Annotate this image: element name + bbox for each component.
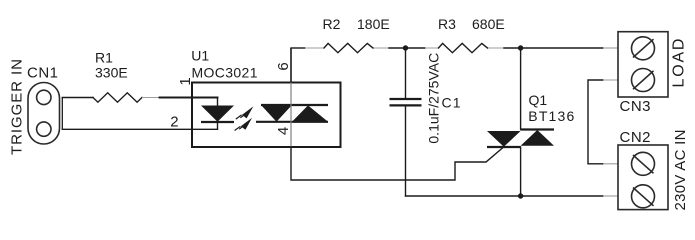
wire R2 to R3 bbox=[389, 47, 425, 49]
svg-text:4: 4 bbox=[275, 127, 292, 135]
connector CN2 bbox=[618, 145, 668, 210]
triac Q1 bbox=[487, 48, 554, 196]
svg-text:330E: 330E bbox=[95, 65, 128, 81]
connector CN1 bbox=[28, 83, 60, 145]
svg-text:TRIGGER IN: TRIGGER IN bbox=[9, 59, 26, 155]
wire R1 to U1 pin1 bbox=[142, 97, 160, 99]
svg-text:R1: R1 bbox=[95, 49, 113, 65]
wire top rail pin6 corner to R2 bbox=[291, 47, 305, 49]
CN1 terminal bar bbox=[61, 97, 63, 129]
svg-text:U1: U1 bbox=[191, 47, 209, 63]
wire CN1 pin2 to U1 pin2 bbox=[62, 128, 217, 130]
svg-text:CN3: CN3 bbox=[620, 98, 651, 115]
svg-text:6: 6 bbox=[275, 62, 292, 70]
CN3/CN2 pin leads bbox=[603, 80, 618, 164]
capacitor C1 bbox=[390, 48, 422, 196]
resistor R3 bbox=[439, 43, 488, 52]
svg-text:680E: 680E bbox=[472, 16, 505, 32]
junction node C1/top rail bbox=[403, 45, 408, 50]
R3 pin leads bbox=[425, 47, 504, 49]
junction node Q1/bottom rail bbox=[518, 193, 523, 198]
wire bottom rail C1 to CN2 bbox=[406, 195, 604, 197]
LED D1 inside U1 bbox=[201, 98, 234, 130]
emission arrows bbox=[235, 106, 254, 130]
wire U1 pin4 to Q1 gate bbox=[291, 147, 504, 180]
optocoupler U1 box bbox=[192, 83, 341, 148]
phototriac inside U1 bbox=[256, 105, 328, 122]
svg-text:180E: 180E bbox=[357, 16, 390, 32]
svg-text:CN2: CN2 bbox=[620, 129, 651, 146]
R2 pin leads bbox=[305, 47, 389, 49]
svg-text:2: 2 bbox=[170, 114, 178, 131]
svg-text:R3: R3 bbox=[438, 16, 456, 32]
svg-text:LOAD: LOAD bbox=[671, 39, 688, 88]
wire CN3 pin2 to CN2 pin1 bbox=[588, 80, 603, 164]
svg-text:1: 1 bbox=[177, 77, 194, 85]
wire R3 to CN3 bbox=[504, 47, 603, 49]
junction node Q1/top rail bbox=[518, 45, 523, 50]
CN2 pin lead bottom bbox=[603, 195, 618, 197]
connector CN3 bbox=[618, 32, 668, 97]
wire U1 pin6 up to top rail bbox=[290, 48, 292, 83]
svg-text:CN1: CN1 bbox=[27, 65, 58, 82]
svg-text:C1: C1 bbox=[442, 95, 461, 111]
svg-text:Q1: Q1 bbox=[529, 92, 548, 108]
internal vertical line pin6-pin4 bbox=[290, 83, 292, 148]
CN3 pin lead top bbox=[603, 47, 618, 49]
wire CN1 pin1 to R1 bbox=[62, 97, 93, 99]
svg-text:BT136: BT136 bbox=[528, 108, 574, 124]
svg-text:230V AC IN: 230V AC IN bbox=[672, 130, 689, 211]
svg-text:0.1uF/275VAC: 0.1uF/275VAC bbox=[425, 53, 441, 144]
resistor R1 bbox=[93, 93, 142, 102]
svg-text:R2: R2 bbox=[323, 16, 341, 32]
resistor R2 bbox=[324, 43, 373, 52]
svg-text:MOC3021: MOC3021 bbox=[192, 65, 258, 81]
